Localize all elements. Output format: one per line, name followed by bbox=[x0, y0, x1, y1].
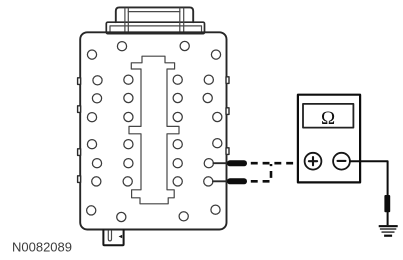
pin row A inner-right bbox=[180, 41, 189, 50]
connector top latch upper block bbox=[116, 7, 193, 22]
svg-text:Ω: Ω bbox=[321, 108, 335, 129]
wire - terminal to ground bbox=[350, 161, 388, 225]
bottom tab inner U slot bbox=[108, 231, 111, 241]
ohmmeter body U1 bbox=[298, 95, 360, 183]
dashed wire probe1 to meter + bbox=[251, 162, 305, 165]
left edge tab y179 bbox=[78, 176, 81, 183]
ground bar 1 bbox=[379, 225, 398, 227]
ohmmeter display bbox=[303, 104, 353, 128]
pin stub row G bbox=[213, 180, 228, 182]
connector body bbox=[80, 32, 226, 229]
ground bar 4 bbox=[384, 235, 392, 237]
pin stub row F bbox=[213, 162, 227, 164]
pin row B bbox=[93, 76, 102, 85]
pin row G probed pin bbox=[204, 177, 213, 186]
bottom tab arrow mark bbox=[119, 235, 123, 238]
pin row F bbox=[92, 159, 101, 168]
probe lead 1 bbox=[227, 160, 247, 166]
pin row E bbox=[87, 140, 96, 149]
left edge tab y81 bbox=[78, 78, 81, 85]
pin row D bbox=[87, 113, 96, 122]
dashed wire probe2 jog up bbox=[251, 164, 271, 181]
bottom tab bbox=[103, 230, 123, 245]
meter + terminal bbox=[305, 153, 322, 170]
pin row C bbox=[92, 94, 101, 103]
svg-text:N0082089: N0082089 bbox=[12, 239, 72, 254]
right edge tab y80 bbox=[226, 77, 229, 84]
pin circles: row A inner-left bbox=[117, 42, 126, 51]
pin row H bbox=[87, 206, 96, 215]
left edge tab y109 bbox=[78, 106, 81, 113]
pin row A outer-right bbox=[211, 50, 220, 59]
left edge tab y152 bbox=[78, 149, 81, 156]
right edge tab y111 bbox=[226, 108, 229, 115]
latch right double vertical bbox=[179, 8, 181, 32]
pin row G bbox=[92, 177, 101, 186]
ground bar 2 bbox=[380, 228, 396, 230]
pin row A outer-left bbox=[87, 50, 96, 59]
connector top latch step bbox=[106, 22, 204, 34]
latch inner horizontal line upper bbox=[128, 11, 180, 13]
latch left double vertical bbox=[124, 8, 126, 32]
right edge tab y151 bbox=[226, 148, 229, 155]
pin row F probed pin bbox=[204, 159, 213, 168]
probe lead 2 bbox=[227, 178, 247, 184]
ground bar 3 bbox=[382, 231, 395, 233]
wire ferrule bbox=[384, 195, 390, 212]
latch inner step line bbox=[110, 26, 202, 33]
central cavity slot outline bbox=[129, 56, 179, 204]
meter - terminal bbox=[333, 153, 350, 170]
